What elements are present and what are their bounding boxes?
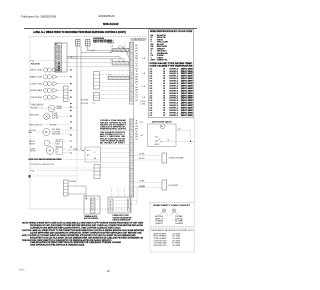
svg-text:N: N [128,203,129,205]
svg-text:12: 12 [130,133,133,135]
svg-text:1-8: 1-8 [142,73,146,75]
svg-text:HIDDEN: HIDDEN [31,90,38,92]
door motor component [162,180,167,190]
connector J3 [94,72,100,90]
junction crosses [70,140,72,154]
connector J4 [94,93,100,101]
border tick component [29,175,31,178]
svg-text:5-2: 5-2 [93,103,95,105]
svg-text:DOOR LOCK SWITCH SHOWN UNLOCKE: DOOR LOCK SWITCH SHOWN UNLOCKED [29,159,63,161]
element driver row HIDDEN [31,88,72,92]
svg-text:BU: BU [135,56,138,58]
svg-text:BK: BK [135,76,138,78]
wire bus upper dashed 2 [67,66,130,68]
svg-text:18: 18 [163,115,165,117]
svg-text:1-8: 1-8 [142,97,146,99]
svg-text:2-8 W: 2-8 W [52,117,59,119]
svg-text:1-8: 1-8 [111,46,113,48]
svg-text:GN/Y: GN/Y [151,60,157,62]
svg-text:GROUND: GROUND [69,181,77,183]
svg-text:Y: Y [135,84,138,86]
svg-text:BU: BU [135,87,138,89]
svg-text:HI 1-8 BK: HI 1-8 BK [52,129,60,131]
svg-text:P1: P1 [56,44,58,46]
svg-text:12: 12 [130,180,133,182]
svg-text:EW30EW55GS8: EW30EW55GS8 [99,14,115,18]
svg-text:P1-8: P1-8 [31,170,35,172]
svg-text:12: 12 [130,53,133,55]
svg-text:L1: L1 [91,205,94,207]
svg-text:12: 12 [130,56,133,58]
svg-text:2 BK: 2 BK [56,48,61,50]
svg-text:N: N [128,200,129,202]
svg-text:18.0 OHMS: 18.0 OHMS [172,240,180,242]
wire vertical dashed x77 lower [76,150,78,186]
svg-text:PK: PK [135,100,138,102]
svg-text:9.0 OHMS: 9.0 OHMS [172,243,180,245]
wire code labels right of harness [135,45,145,141]
svg-text:BLOC DE CONEXION: BLOC DE CONEXION [84,218,99,220]
svg-text:CONV ELEMENT: CONV ELEMENT [154,238,167,240]
connector narrow right mid [94,165,100,179]
wire: chassis dashed border top [30,36,146,38]
svg-text:RESISTANCE VALUES AT ROOM TEMP: RESISTANCE VALUES AT ROOM TEMP (70°F) [152,229,195,232]
svg-text:12: 12 [130,92,133,94]
svg-text:21.6 OHMS: 21.6 OHMS [172,233,180,235]
svg-text:12: 12 [130,190,133,192]
svg-text:12: 12 [130,125,133,127]
svg-text:59/15: 59/15 [19,269,25,271]
element driver row OVEN [31,95,72,99]
svg-text:12: 12 [130,77,133,79]
heating element broil [112,48,129,51]
svg-text:L1: L1 [91,208,94,210]
lamp L2 [172,209,175,212]
svg-text:12: 12 [130,164,133,166]
svg-text:12: 12 [130,154,133,156]
svg-text:12: 12 [130,174,133,176]
wire dashed row 2 [30,175,77,177]
svg-text:1-8: 1-8 [167,139,169,141]
wire: chassis dashed border bottom [30,208,131,210]
wire: chassis dashed border left [29,37,31,209]
svg-text:4 b L: 4 b L [155,136,159,138]
ground connector strip [64,180,69,196]
resistance rows [154,232,181,247]
svg-text:12: 12 [130,130,133,132]
svg-text:1 BK: 1 BK [56,46,61,48]
svg-text:V: V [135,95,138,97]
svg-text:OVEN LIGHTS 1-8: OVEN LIGHTS 1-8 [29,124,42,126]
svg-text:5-8 W: 5-8 W [140,101,146,103]
svg-text:2-8 W: 2-8 W [139,158,146,160]
wire into interlock [68,150,85,152]
svg-text:8 BK: 8 BK [56,61,61,63]
svg-text:12: 12 [130,167,133,169]
svg-text:5-8: 5-8 [109,75,111,77]
svg-text:GY: GY [135,139,138,141]
svg-text:12: 12 [130,66,133,68]
svg-text:OVEN LIGHT: OVEN LIGHT [29,114,39,116]
lamp L1 [162,209,165,212]
element driver row CONV [31,82,72,86]
element driver row BROIL [31,68,72,72]
svg-text:M: M [161,126,163,128]
svg-text:12: 12 [130,45,133,47]
svg-text:3500W: 3500W [38,70,43,72]
svg-text:1-8: 1-8 [142,86,146,88]
svg-text:12: 12 [130,64,133,66]
svg-text:L1: L1 [91,202,94,204]
svg-text:SIDES OF ELEMENT: SIDES OF ELEMENT [100,124,126,126]
svg-text:12: 12 [130,159,133,161]
svg-text:M: M [45,131,47,134]
svg-text:12: 12 [130,97,133,99]
connector P1 pin column [55,43,62,72]
wires inside power block [113,201,128,212]
svg-text:CONVECTION FAN: CONVECTION FAN [169,157,185,160]
svg-text:105°C 600V: 105°C 600V [181,115,194,117]
svg-text:12: 12 [130,120,133,122]
notes paragraph block [22,222,144,247]
svg-text:1-8: 1-8 [142,58,146,60]
wire jog stubs [121,50,123,53]
svg-text:12: 12 [130,69,133,71]
svg-text:Y: Y [135,131,138,133]
svg-text:12: 12 [130,143,133,145]
svg-text:12: 12 [130,128,133,130]
junction dot A [71,56,72,57]
heating element bake [112,62,129,65]
svg-text:HI TEMP: HI TEMP [175,221,183,223]
svg-text:12: 12 [130,161,133,163]
latch switch contacts [156,139,161,142]
wires interlock rows [101,148,130,167]
svg-text:12: 12 [130,95,133,97]
svg-text:2-8: 2-8 [150,115,153,117]
svg-text:12: 12 [130,100,133,102]
wires into harness strip [100,71,130,99]
svg-text:375W: 375W [38,83,43,85]
svg-text:SEW-2: SEW-2 [169,115,178,117]
wire bus upper dashed 1 [59,62,112,64]
svg-text:12: 12 [130,84,133,86]
svg-text:L1: L1 [91,199,94,201]
svg-text:N: N [128,206,129,208]
latch switch S2 [29,140,70,147]
wire dashed divider 1 [63,159,101,161]
svg-text:12: 12 [130,177,133,179]
svg-text:AUTO DOOR LATCH: AUTO DOOR LATCH [152,120,172,123]
svg-text:BROIL: BROIL [108,40,114,42]
svg-text:P1-5 BK: P1-5 BK [31,107,39,109]
wire board to element L2 [81,52,112,54]
svg-text:12: 12 [130,138,133,140]
wire strip gap link [133,104,135,119]
svg-text:6 BK: 6 BK [56,57,61,59]
interlock box [85,147,101,162]
wire relay to harness 1 [109,51,112,53]
svg-text:WIRE IDENTIFICATION BY COLOR C: WIRE IDENTIFICATION BY COLOR CODE [150,30,193,33]
connector J1 [76,40,81,47]
svg-text:12: 12 [130,71,133,73]
svg-text:12: 12 [130,90,133,92]
harness connector strip P2 lower [130,119,134,197]
svg-text:WIRING DIAGRAM: WIRING DIAGRAM [103,22,119,26]
svg-text:BU: BU [135,134,138,136]
svg-text:12: 12 [130,79,133,81]
svg-text:BROIL: BROIL [31,70,37,72]
terminal block TB1 [84,196,100,214]
svg-text:13.7 OHMS: 13.7 OHMS [172,236,180,238]
wire board to element L1 [86,49,122,51]
wire ground to terminal block [68,185,86,187]
svg-text:12: 12 [130,74,133,76]
heating element convection [108,76,130,79]
svg-text:BK: BK [135,45,138,47]
latch motor M3 [160,124,165,129]
svg-text:GY: GY [135,61,138,63]
svg-text:GRN/YEL: GRN/YEL [157,60,169,62]
svg-text:1-8: 1-8 [140,135,144,137]
svg-text:P2-8 W: P2-8 W [81,103,89,105]
svg-text:1-8 BK: 1-8 BK [52,115,58,117]
svg-text:CIRCUITS WHEN DE-: CIRCUITS WHEN DE- [100,127,127,129]
svg-text:12: 12 [130,61,133,63]
svg-text:1-8 BK: 1-8 BK [139,153,145,155]
svg-text:BROIL ELEMENT: BROIL ELEMENT [154,236,167,238]
svg-text:12: 12 [130,51,133,53]
svg-text:N 3-8 W: N 3-8 W [52,134,61,136]
svg-text:2-8 W: 2-8 W [139,186,146,188]
svg-text:OPEN: OPEN [57,108,62,110]
svg-text:DOOR MTR: DOOR MTR [169,185,179,187]
svg-text:OVEN: OVEN [31,97,38,99]
svg-text:P1-3: P1-3 [31,60,35,62]
cooling fan motor M1 [29,129,78,136]
junction dot latch bus [190,141,191,142]
element terminal bumps [118,48,124,62]
svg-text:2-8 W: 2-8 W [52,113,58,115]
svg-text:LO 2-8 R: LO 2-8 R [52,131,61,133]
wire latch top to bus [176,129,191,131]
svg-text:12: 12 [130,146,133,148]
svg-text:ENERGIZED (OFF): ENERGIZED (OFF) [100,129,127,131]
oven cavity lights box [150,203,194,227]
svg-text:CODE CALIBRE TYPE TEMPERATURE: CODE CALIBRE TYPE TEMPERATURE [150,64,194,67]
svg-text:LABEL ALL WIRES PRIOR TO DISCO: LABEL ALL WIRES PRIOR TO DISCONNECTION W… [33,31,126,34]
svg-text:26.2 OHMS: 26.2 OHMS [172,238,180,240]
convection fan component [162,153,167,163]
svg-text:1-8 BK: 1-8 BK [139,181,145,183]
wire dashed row [37,170,101,172]
svg-text:10: 10 [107,269,110,273]
svg-text:12: 12 [130,141,133,143]
note block: element circuit text [100,132,126,145]
wire dotted divider [30,167,101,169]
svg-text:1-8: 1-8 [140,122,144,124]
header rule [24,28,197,30]
lamp spec rows [155,215,184,225]
svg-text:MOTOR: MOTOR [30,151,36,153]
wire fan diagonals to harness [118,45,130,55]
svg-text:V: V [135,63,138,65]
connector strip left mid [64,86,69,102]
svg-text:12: 12 [130,156,133,158]
resistance table box [150,228,194,252]
svg-text:P2-6 BK: P2-6 BK [81,99,88,101]
svg-text:3 BK: 3 BK [56,50,61,52]
wires into power block top [111,188,113,197]
svg-text:12: 12 [130,58,133,60]
power connector block [108,197,131,213]
svg-text:12: 12 [130,82,133,84]
svg-text:DLB: DLB [57,141,61,143]
lamp wires fan [158,212,180,216]
legend box: wire identification by color code [148,30,193,118]
svg-text:SWITCH: SWITCH [29,143,36,145]
note block: relay operation text [100,119,127,130]
svg-text:T: T [135,121,138,123]
wire power block to right [131,200,137,202]
svg-text:CONV: CONV [31,83,38,85]
svg-text:2500W: 2500W [38,77,43,79]
svg-text:12: 12 [130,172,133,174]
svg-text:5-8 BK: 5-8 BK [140,103,146,105]
svg-text:12: 12 [130,169,133,171]
svg-text:BK: BK [94,158,96,160]
svg-text:UNA OPERACION PELIGROSA E INAD: UNA OPERACION PELIGROSA E INADECUADA. [30,244,86,247]
svg-text:12: 12 [130,87,133,89]
wire vertical dashed mid [100,154,102,176]
svg-text:RELAY BD: RELAY BD [31,63,41,66]
wire stub rows [30,104,44,108]
oven control board P1 [55,43,67,72]
wire control to relay [67,56,77,58]
oven lamp row [29,114,70,120]
wire text-block rows [101,130,130,132]
svg-text:CONV MOTOR: CONV MOTOR [154,240,168,242]
svg-text:3-8: 3-8 [111,60,113,62]
svg-text:12: 12 [130,43,133,45]
svg-text:12: 12 [130,122,133,124]
svg-text:12: 12 [130,135,133,137]
svg-text:12: 12 [130,187,133,189]
svg-text:Publication No. 5995502599: Publication No. 5995502599 [21,15,57,19]
auto door latch box [148,124,177,146]
wire board lower 2 [67,58,124,60]
wire P1 to J1 vertical [76,46,78,150]
svg-text:GY: GY [135,92,138,94]
svg-text:DOOR SWITCH CLOSED WITH DOOR: DOOR SWITCH CLOSED WITH DOOR [30,164,55,166]
wire: dashed border right lower [193,118,195,203]
svg-text:5-8 L: 5-8 L [178,129,182,131]
svg-text:TB: TB [85,199,87,201]
connector J2 [86,40,91,47]
svg-text:12: 12 [130,185,133,187]
svg-text:BK: BK [135,123,138,125]
svg-text:150 OHMS: 150 OHMS [172,245,180,247]
svg-text:THE ELEMENT CIRCUITS: THE ELEMENT CIRCUITS [100,132,125,134]
svg-text:12: 12 [130,148,133,150]
harness connector strip P2 upper [130,42,134,104]
svg-text:12: 12 [130,48,133,50]
svg-text:5 BK: 5 BK [56,55,61,57]
svg-text:4 BK: 4 BK [56,53,61,55]
element driver row BAKE [31,75,72,79]
svg-text:3400W: 3400W [108,42,115,44]
wire board lower 1 [67,56,120,58]
svg-text:POWER SUPPLY CORD: POWER SUPPLY CORD [113,215,130,217]
convection motor M2 [30,147,87,155]
svg-text:12: 12 [130,182,133,184]
oven light switch S1 [31,105,77,116]
svg-text:Y: Y [135,53,138,55]
svg-text:GN: GN [135,74,138,76]
wire latch to bus [162,140,191,142]
svg-text:PK: PK [135,69,138,71]
svg-text:T: T [135,71,138,73]
junction marks column [70,103,71,136]
wire J2 vertical [80,46,82,150]
svg-text:OVEN CAVITY LIGHT CIRCUIT: OVEN CAVITY LIGHT CIRCUIT [153,204,191,207]
svg-text:12: 12 [130,193,133,195]
wire J2 to relay box [87,46,89,50]
svg-text:12: 12 [130,151,133,153]
svg-text:M: M [49,150,51,153]
svg-text:LIGHT SWITCH: LIGHT SWITCH [31,105,44,107]
svg-text:7 BK: 7 BK [56,59,61,61]
